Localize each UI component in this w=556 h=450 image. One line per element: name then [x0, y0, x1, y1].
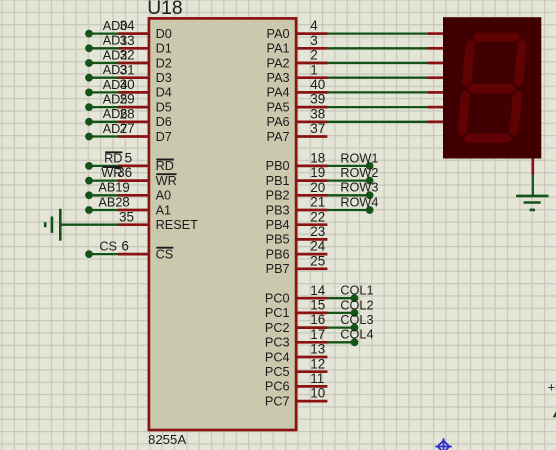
7-seg display pin stub 1 — [428, 32, 444, 35]
wire PA6 to 7-seg display pin — [327, 121, 428, 123]
svg-text:20: 20 — [310, 180, 325, 195]
pin D6 (pin 28) stub — [118, 120, 149, 123]
wire net ROW2 from PB1 — [327, 179, 370, 181]
wire net AB2 to A1 — [89, 209, 119, 211]
junction dot net COL3 — [351, 324, 359, 332]
svg-text:WR: WR — [156, 174, 177, 188]
pin D5 (pin 29) stub — [118, 106, 149, 109]
svg-text:4: 4 — [310, 18, 318, 33]
svg-text:CS: CS — [156, 247, 174, 261]
svg-text:AD0: AD0 — [103, 19, 128, 33]
junction dot net ROW4 — [366, 206, 374, 214]
svg-text:8: 8 — [122, 195, 130, 210]
svg-text:5: 5 — [125, 151, 133, 166]
wire net AD4 to D4 — [89, 91, 119, 93]
svg-text:COL4: COL4 — [340, 328, 373, 342]
svg-text:PA3: PA3 — [267, 71, 290, 85]
svg-text:9: 9 — [122, 180, 130, 195]
7-seg display pin stub 6 — [428, 106, 444, 109]
svg-text:D0: D0 — [156, 27, 172, 41]
svg-text:AD1: AD1 — [103, 34, 128, 48]
overline for net label RD — [105, 151, 122, 153]
svg-text:D5: D5 — [156, 100, 172, 114]
svg-text:U18: U18 — [147, 0, 182, 19]
svg-text:12: 12 — [310, 356, 325, 371]
svg-text:17: 17 — [310, 327, 325, 342]
pin PC7 (pin 10) stub — [296, 400, 327, 403]
svg-text:3: 3 — [310, 33, 318, 48]
junction dot net AD6 — [85, 118, 93, 126]
wire net AD3 to D3 — [89, 77, 119, 79]
svg-text:ROW3: ROW3 — [340, 181, 378, 195]
svg-text:D2: D2 — [156, 56, 172, 70]
svg-text:ROW1: ROW1 — [340, 151, 378, 165]
junction dot net AD1 — [85, 44, 93, 52]
pin D2 (pin 32) stub — [118, 62, 149, 65]
svg-text:PB6: PB6 — [266, 247, 290, 261]
7-seg segment f (top left) — [462, 39, 476, 88]
wire net CS to CS — [89, 253, 119, 255]
wire RESET to ground — [61, 224, 119, 226]
svg-text:40: 40 — [310, 77, 325, 92]
pin D4 (pin 30) stub — [118, 91, 149, 94]
wire PA0 to 7-seg display pin — [327, 32, 428, 34]
overline for pin name WR — [156, 173, 176, 175]
junction dot net RD — [85, 162, 93, 170]
svg-text:PC3: PC3 — [265, 336, 290, 350]
svg-text:A0: A0 — [156, 189, 172, 203]
svg-text:PC2: PC2 — [265, 321, 290, 335]
wire PA4 to 7-seg display pin — [327, 91, 428, 93]
pin PC1 (pin 15) stub — [296, 312, 327, 315]
svg-text:AB1: AB1 — [98, 181, 122, 195]
svg-text:AD5: AD5 — [103, 93, 128, 107]
svg-text:PA1: PA1 — [267, 42, 290, 56]
svg-text:PB5: PB5 — [266, 233, 290, 247]
pin PA7 (pin 37) stub — [296, 135, 327, 138]
7-seg display pin stub 2 — [428, 47, 444, 50]
svg-text:2: 2 — [310, 48, 318, 63]
svg-text:6: 6 — [121, 239, 129, 254]
svg-text:PA2: PA2 — [267, 56, 290, 70]
7-seg segment b (top right) — [514, 39, 528, 88]
ground bar 2 — [524, 201, 541, 204]
svg-text:D1: D1 — [156, 42, 172, 56]
svg-text:PB7: PB7 — [266, 262, 290, 276]
svg-text:1: 1 — [310, 62, 318, 77]
svg-text:COL2: COL2 — [340, 298, 373, 312]
junction dot net AB2 — [85, 206, 93, 214]
svg-text:AD4: AD4 — [103, 78, 128, 92]
wire net AB1 to A0 — [89, 194, 119, 196]
svg-text:38: 38 — [310, 106, 325, 121]
pin D7 (pin 27) stub — [118, 135, 149, 138]
svg-text:PA7: PA7 — [267, 130, 290, 144]
svg-text:COL1: COL1 — [340, 284, 373, 298]
junction dot net AD5 — [85, 103, 93, 111]
svg-text:PB1: PB1 — [266, 174, 290, 188]
pin PC2 (pin 16) stub — [296, 326, 327, 329]
junction dot net ROW1 — [366, 162, 374, 170]
ground symbol (display) bar 1 — [516, 195, 548, 198]
pin PB4 (pin 22) stub — [296, 223, 327, 226]
svg-text:PC5: PC5 — [265, 365, 290, 379]
pin PC6 (pin 11) stub — [296, 385, 327, 388]
svg-text:D6: D6 — [156, 115, 172, 129]
svg-text:PC7: PC7 — [265, 394, 290, 408]
7-seg common pin stub (bottom) — [531, 159, 534, 176]
wire net ROW3 from PB2 — [327, 194, 370, 196]
svg-text:PC0: PC0 — [265, 292, 290, 306]
wire net COL3 from PC2 — [327, 326, 355, 328]
junction dot net ROW3 — [366, 191, 374, 199]
svg-text:35: 35 — [119, 209, 134, 224]
origin marker (blue crosshair) — [435, 438, 452, 450]
svg-text:D4: D4 — [156, 86, 172, 100]
svg-text:39: 39 — [310, 92, 325, 107]
svg-text:PA5: PA5 — [267, 100, 290, 114]
svg-text:AD6: AD6 — [103, 107, 128, 121]
svg-text:PC6: PC6 — [265, 380, 290, 394]
junction dot net AD7 — [85, 133, 93, 141]
pin CS (pin 6) stub — [118, 253, 149, 256]
svg-text:RD: RD — [104, 151, 122, 165]
svg-text:PC1: PC1 — [265, 306, 290, 320]
junction dot net AB1 — [85, 191, 93, 199]
svg-text:AB2: AB2 — [98, 195, 122, 209]
pin PC4 (pin 13) stub — [296, 356, 327, 359]
svg-text:37: 37 — [310, 121, 325, 136]
7-segment display body — [443, 17, 541, 158]
ground bar 3 — [530, 209, 535, 212]
wire net AD5 to D5 — [89, 106, 119, 108]
7-seg segment c (bottom right) — [509, 90, 523, 137]
svg-text:15: 15 — [310, 298, 325, 313]
7-seg segment a (top) — [472, 33, 522, 42]
pin A1 (pin 8) stub — [118, 209, 149, 212]
svg-text:13: 13 — [310, 342, 325, 357]
wire net AD6 to D6 — [89, 121, 119, 123]
wire net AD7 to D7 — [89, 135, 119, 137]
7-seg segment e (bottom left) — [457, 90, 471, 137]
pin PB6 (pin 24) stub — [296, 253, 327, 256]
power symbol arrow (clipped at right edge) — [553, 411, 556, 417]
junction dot net AD3 — [85, 74, 93, 82]
7-seg display pin stub 7 — [428, 120, 444, 123]
svg-text:11: 11 — [310, 371, 324, 386]
pin PC3 (pin 17) stub — [296, 341, 327, 344]
junction dot net AD2 — [85, 59, 93, 67]
pin PA5 (pin 39) stub — [296, 106, 327, 109]
junction dot net WR — [85, 177, 93, 185]
pin PB0 (pin 18) stub — [296, 165, 327, 168]
svg-text:21: 21 — [310, 195, 325, 210]
pin PB5 (pin 23) stub — [296, 238, 327, 241]
svg-text:PB0: PB0 — [266, 159, 290, 173]
svg-text:RD: RD — [156, 159, 174, 173]
svg-text:18: 18 — [310, 151, 325, 166]
wire net AD0 to D0 — [89, 32, 119, 34]
svg-text:PC4: PC4 — [265, 350, 290, 364]
overline for net label WR — [102, 166, 122, 168]
svg-text:D7: D7 — [156, 130, 172, 144]
7-seg display pin stub 5 — [428, 91, 444, 94]
pin D3 (pin 31) stub — [118, 76, 149, 79]
pin PB3 (pin 21) stub — [296, 209, 327, 212]
7-seg segment g (middle) — [467, 84, 517, 93]
svg-text:16: 16 — [310, 312, 325, 327]
svg-text:PB3: PB3 — [266, 203, 290, 217]
wire PA3 to 7-seg display pin — [327, 77, 428, 79]
svg-text:19: 19 — [310, 165, 325, 180]
overline for pin name CS — [156, 247, 173, 249]
junction dot net COL2 — [351, 309, 359, 317]
svg-text:ROW2: ROW2 — [340, 166, 378, 180]
svg-text:10: 10 — [310, 386, 325, 401]
pin RESET (pin 35) stub — [118, 223, 149, 226]
ground bar 3 — [44, 222, 47, 227]
wire net ROW4 from PB3 — [327, 209, 370, 211]
svg-text:ROW4: ROW4 — [340, 195, 378, 209]
wire PA1 to 7-seg display pin — [327, 47, 428, 49]
pin PA6 (pin 38) stub — [296, 120, 327, 123]
svg-text:PB2: PB2 — [266, 189, 290, 203]
svg-text:8255A: 8255A — [148, 432, 186, 447]
pin PB7 (pin 25) stub — [296, 267, 327, 270]
wire common pin to ground — [532, 175, 534, 197]
svg-text:RESET: RESET — [156, 218, 199, 232]
pin PA0 (pin 4) stub — [296, 32, 327, 35]
wire net RD to RD — [89, 165, 119, 167]
wire net COL1 from PC0 — [327, 297, 355, 299]
svg-text:D3: D3 — [156, 71, 172, 85]
svg-text:COL3: COL3 — [340, 313, 373, 327]
svg-text:24: 24 — [310, 239, 326, 254]
pin PB2 (pin 20) stub — [296, 194, 327, 197]
svg-text:PA6: PA6 — [267, 115, 290, 129]
overline for pin name RD — [156, 159, 174, 161]
pin PB1 (pin 19) stub — [296, 179, 327, 182]
pin D0 (pin 34) stub — [118, 32, 149, 35]
junction dot net AD0 — [85, 30, 93, 38]
svg-text:WR: WR — [101, 166, 122, 180]
pin RD (pin 5) stub — [118, 165, 149, 168]
ground bar 2 — [51, 217, 54, 233]
pin PA1 (pin 3) stub — [296, 47, 327, 50]
pin PA2 (pin 2) stub — [296, 62, 327, 65]
pin PA3 (pin 1) stub — [296, 76, 327, 79]
7-seg display pin stub 4 — [428, 76, 444, 79]
wire PA2 to 7-seg display pin — [327, 62, 428, 64]
svg-text:PB4: PB4 — [266, 218, 290, 232]
wire net ROW1 from PB0 — [327, 165, 370, 167]
junction dot net COL4 — [351, 338, 359, 346]
svg-text:22: 22 — [310, 209, 325, 224]
svg-text:PA0: PA0 — [267, 27, 290, 41]
svg-text:23: 23 — [310, 224, 325, 239]
junction dot net COL1 — [351, 294, 359, 302]
svg-text:14: 14 — [310, 283, 326, 298]
svg-text:PA4: PA4 — [267, 86, 290, 100]
pin WR (pin 36) stub — [118, 179, 149, 182]
junction dot net CS — [85, 250, 93, 258]
ground symbol (RESET, rotated left) bar 1 — [59, 209, 62, 241]
svg-text:AD3: AD3 — [103, 63, 128, 77]
pin PC5 (pin 12) stub — [296, 370, 327, 373]
7-seg segment d (bottom) — [462, 134, 512, 143]
wire net AD1 to D1 — [89, 47, 119, 49]
junction dot net AD4 — [85, 89, 93, 97]
7-seg display pin stub 3 — [428, 62, 444, 65]
wire net COL4 from PC3 — [327, 341, 355, 343]
wire PA5 to 7-seg display pin — [327, 106, 428, 108]
wire net AD2 to D2 — [89, 62, 119, 64]
pin PC0 (pin 14) stub — [296, 297, 327, 300]
svg-text:A1: A1 — [156, 203, 172, 217]
wire net COL2 from PC1 — [327, 312, 355, 314]
wire net WR to WR — [89, 179, 119, 181]
svg-text:AD7: AD7 — [103, 122, 128, 136]
pin PA4 (pin 40) stub — [296, 91, 327, 94]
junction dot net ROW2 — [366, 177, 374, 185]
IC U18 8255A body — [149, 18, 296, 430]
svg-text:+5V: +5V — [548, 380, 556, 394]
svg-text:AD2: AD2 — [103, 48, 128, 62]
pin D1 (pin 33) stub — [118, 47, 149, 50]
svg-text:25: 25 — [310, 253, 325, 268]
pin A0 (pin 9) stub — [118, 194, 149, 197]
svg-text:CS: CS — [99, 240, 117, 254]
